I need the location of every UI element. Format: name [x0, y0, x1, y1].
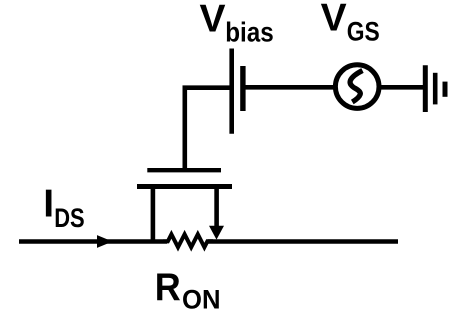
svg-text:V: V [200, 0, 226, 41]
svg-text:GS: GS [347, 16, 380, 46]
svg-text:V: V [321, 0, 347, 40]
svg-text:R: R [155, 266, 181, 309]
svg-text:bias: bias [225, 17, 274, 48]
svg-text:I: I [43, 183, 54, 226]
svg-text:ON: ON [182, 285, 221, 315]
svg-text:DS: DS [54, 203, 85, 233]
